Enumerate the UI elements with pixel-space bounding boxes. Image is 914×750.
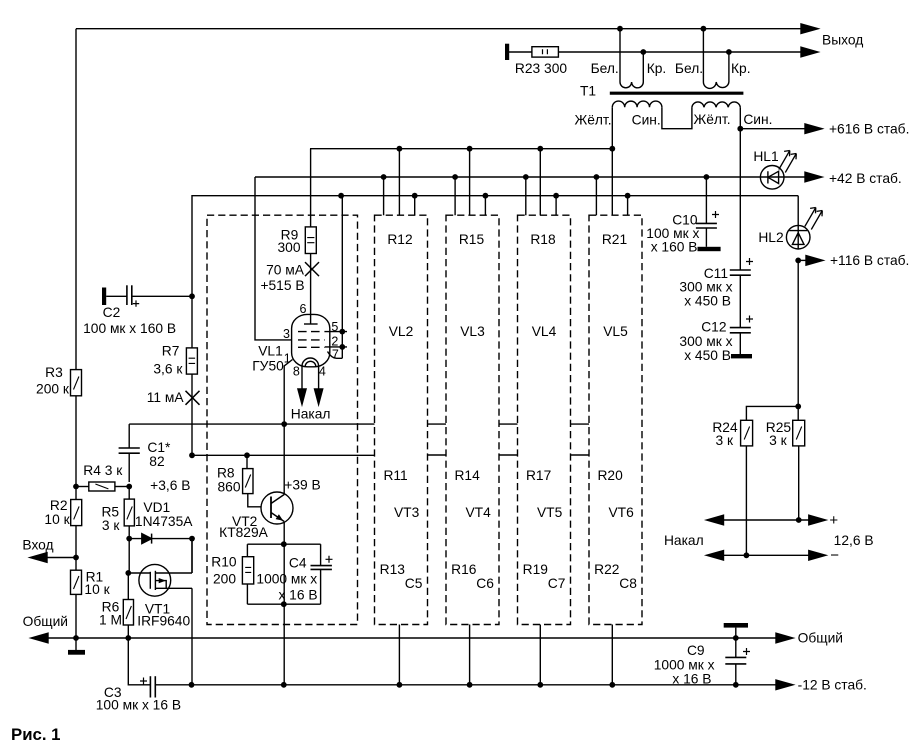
- svg-text:C1*: C1*: [147, 440, 171, 455]
- svg-text:11 мА: 11 мА: [147, 390, 185, 405]
- ground symbol: [75, 638, 77, 651]
- node C9 top: [733, 635, 739, 641]
- resistor R4: [76, 486, 89, 488]
- wire -12V rail (y=684.8): [155, 684, 776, 686]
- transistor VT1 IRF9640: [139, 564, 171, 596]
- svg-text:C12: C12: [701, 320, 726, 335]
- svg-text:х 450 В: х 450 В: [684, 348, 731, 363]
- svg-text:R19: R19: [523, 562, 549, 577]
- node out1-primary2: [701, 26, 707, 32]
- wire VD1 cathode vertical: [191, 539, 193, 573]
- svg-text:C9: C9: [687, 643, 705, 658]
- node pin 5: [339, 329, 345, 335]
- arrow Вход: [30, 553, 47, 563]
- node bus2 feeds: [381, 174, 387, 180]
- wire bus1 elbow to R9: [310, 149, 312, 227]
- node nakal plus R25: [796, 517, 802, 523]
- node pin1 midA: [281, 421, 287, 427]
- svg-text:R7: R7: [162, 344, 180, 359]
- resistor R9: [305, 227, 316, 254]
- svg-text:1000 мк х: 1000 мк х: [654, 658, 715, 673]
- node R4 left: [73, 484, 79, 490]
- tube anode plate: [304, 323, 318, 325]
- svg-text:C6: C6: [476, 576, 494, 591]
- svg-text:Кр.: Кр.: [731, 61, 751, 76]
- svg-text:Жёлт.: Жёлт.: [693, 112, 730, 127]
- node out1-primary1: [617, 26, 623, 32]
- capacitor C1: [119, 447, 140, 449]
- tube grid 3 (pin 2): [298, 346, 325, 348]
- svg-text:R17: R17: [526, 468, 551, 483]
- svg-text:Син.: Син.: [632, 113, 661, 128]
- wire loop bottom: [247, 603, 320, 605]
- block VL5 feed wires: [596, 149, 627, 216]
- wire bus1 (y=148.7): [310, 148, 612, 150]
- svg-text:R22: R22: [594, 562, 619, 577]
- svg-text:Общий: Общий: [798, 631, 843, 646]
- X mark 11 мА: [186, 391, 200, 405]
- wire C2 left: [106, 295, 127, 297]
- svg-text:Жёлт.: Жёлт.: [574, 113, 611, 128]
- capacitor C9: [725, 656, 746, 658]
- wire R7 down: [191, 374, 193, 455]
- wire Общий rail (y=638): [48, 637, 776, 639]
- node bus3 feeds: [338, 193, 344, 199]
- svg-text:300 мк х: 300 мк х: [679, 280, 732, 295]
- HL1 emission arrows: [779, 151, 797, 173]
- svg-text:C5: C5: [405, 576, 423, 591]
- resistor R25: [793, 420, 805, 446]
- svg-text:VL2: VL2: [389, 324, 414, 339]
- svg-text:R13: R13: [380, 562, 406, 577]
- arrow +42: [805, 172, 822, 182]
- svg-text:Бел.: Бел.: [675, 61, 703, 76]
- capacitor C10: [704, 174, 710, 180]
- terminal bar C9 top: [724, 623, 748, 628]
- svg-text:3 к: 3 к: [102, 518, 121, 533]
- node -12 rail joints: [189, 682, 195, 688]
- arrow Общий left: [31, 633, 48, 643]
- terminal bar C12 bottom: [739, 333, 741, 354]
- svg-text:VT5: VT5: [537, 505, 563, 520]
- svg-text:Кр.: Кр.: [647, 61, 667, 76]
- resistor R3: [71, 370, 82, 396]
- wire R2 to R1: [75, 526, 77, 571]
- tube grid 2 (pin 3): [298, 339, 325, 341]
- svg-text:8: 8: [293, 364, 300, 378]
- wire C2 right: [132, 295, 192, 297]
- svg-text:ГУ50: ГУ50: [252, 358, 284, 373]
- svg-text:200 к: 200 к: [36, 381, 70, 396]
- node R8 top: [244, 452, 250, 458]
- svg-text:VL4: VL4: [532, 324, 557, 339]
- node C2-R7: [189, 293, 195, 299]
- svg-text:VT3: VT3: [394, 505, 420, 520]
- wire +616: [740, 128, 805, 130]
- arrow +116: [806, 256, 823, 266]
- svg-text:х 16 В: х 16 В: [672, 672, 711, 687]
- svg-text:100 мк х 16 В: 100 мк х 16 В: [96, 697, 181, 712]
- wire pin 7: [328, 352, 343, 359]
- svg-text:4: 4: [319, 364, 326, 378]
- svg-text:R3: R3: [45, 365, 63, 380]
- svg-text:Вход: Вход: [22, 538, 53, 553]
- transistor VT2: [261, 492, 293, 524]
- HL2 emission arrows: [805, 208, 823, 230]
- svg-text:C4: C4: [289, 556, 307, 571]
- node pin 2: [339, 344, 345, 350]
- arrow nakal plus right: [809, 515, 826, 525]
- svg-text:R23 300: R23 300: [515, 61, 567, 76]
- wire bus3 (y=195.7): [193, 195, 799, 197]
- wire R1 to Общий: [75, 594, 77, 638]
- wire pin 3 left: [255, 177, 292, 340]
- svg-text:860: 860: [217, 480, 240, 495]
- svg-text:х 160 В: х 160 В: [651, 240, 698, 255]
- svg-text:5: 5: [331, 320, 338, 334]
- svg-text:VL5: VL5: [603, 324, 628, 339]
- wire Общий to C3: [128, 638, 150, 685]
- wire midB stubs between blocks (y=455): [428, 454, 590, 456]
- dashed box VL2 block: [375, 215, 428, 624]
- svg-text:HL2: HL2: [758, 230, 783, 245]
- svg-text:-12 В стаб.: -12 В стаб.: [798, 678, 867, 693]
- wire R24 to nakal minus: [745, 446, 747, 555]
- wire VT2 emitter down: [283, 522, 285, 685]
- resistor R7: [186, 348, 197, 374]
- wire output top (Выход line 1): [76, 28, 801, 30]
- LED HL1: [760, 166, 784, 190]
- svg-text:VD1: VD1: [143, 500, 170, 515]
- wire VT1 source down: [191, 588, 193, 685]
- wire R24 elbow: [746, 406, 798, 420]
- svg-text:C8: C8: [619, 576, 637, 591]
- arrow heater 4: [315, 389, 323, 404]
- wire C1 elbow: [128, 424, 130, 448]
- node R24 elbow: [795, 404, 801, 410]
- wire Вход: [47, 557, 76, 559]
- wire loop top: [247, 543, 320, 545]
- resistor R2: [71, 500, 82, 526]
- svg-text:Выход: Выход: [822, 33, 863, 48]
- capacitor C4: [320, 544, 322, 565]
- block VL2 feed wires: [384, 149, 415, 216]
- transformer T1 secondary winding 2 (Жёлт-Син): [692, 102, 740, 107]
- svg-text:+42 В стаб.: +42 В стаб.: [829, 171, 902, 186]
- diode VD1 zener: [129, 538, 192, 540]
- wire R9 to anode: [310, 254, 312, 325]
- svg-text:R11: R11: [383, 468, 407, 483]
- node T1-616: [737, 126, 743, 132]
- svg-text:VT4: VT4: [465, 505, 491, 520]
- arrow Выход 1: [801, 24, 818, 34]
- wire midB (y=455.3): [192, 454, 375, 456]
- wire +42 bus (y=177): [255, 176, 805, 178]
- block VL4 feed wires: [526, 149, 556, 216]
- node R6 bottom rail: [125, 635, 131, 641]
- dashed box VL5 block: [589, 215, 642, 624]
- svg-text:R8: R8: [217, 465, 235, 480]
- svg-text:200: 200: [213, 571, 236, 586]
- LED HL2: [786, 225, 810, 249]
- svg-text:R16: R16: [451, 562, 477, 577]
- svg-text:+3,6 В: +3,6 В: [150, 478, 190, 493]
- capacitor C12: [730, 327, 751, 329]
- node nakal minus R24: [744, 552, 750, 558]
- svg-text:10 к: 10 к: [84, 582, 110, 597]
- svg-text:3: 3: [283, 327, 290, 341]
- wire R6 to rail: [127, 625, 129, 638]
- svg-text:VL3: VL3: [460, 324, 485, 339]
- svg-text:3,6 к: 3,6 к: [153, 362, 183, 377]
- node Вход: [73, 555, 79, 561]
- transformer T1 primary winding 1 (Бел-Кр): [619, 29, 621, 82]
- wire +116: [798, 259, 806, 261]
- svg-text:R15: R15: [459, 232, 485, 247]
- svg-text:R18: R18: [530, 232, 556, 247]
- svg-text:C7: C7: [548, 576, 566, 591]
- wire Син jumper: [662, 107, 692, 128]
- arrow nakal plus left: [707, 515, 724, 525]
- tube grid 1 (pin 5): [298, 331, 325, 333]
- node VT1 gate: [125, 570, 131, 576]
- svg-text:R10: R10: [211, 555, 237, 570]
- terminal bar C2 left: [102, 288, 106, 306]
- wire nakal plus: [723, 519, 812, 521]
- svg-text:R12: R12: [387, 232, 412, 247]
- svg-text:+616 В стаб.: +616 В стаб.: [829, 122, 909, 137]
- svg-text:10 к: 10 к: [44, 512, 70, 527]
- svg-text:Рис. 1: Рис. 1: [11, 725, 61, 744]
- svg-text:IRF9640: IRF9640: [137, 614, 190, 629]
- svg-text:Накал: Накал: [291, 407, 331, 422]
- wire midA stubs between blocks (y=424.1): [428, 423, 590, 425]
- svg-text:300: 300: [277, 240, 300, 255]
- svg-text:R2: R2: [50, 498, 68, 513]
- wire VT2 collector up: [283, 424, 285, 494]
- wire bus3 elbow to R7: [191, 196, 194, 348]
- svg-text:R4 3 к: R4 3 к: [83, 463, 123, 478]
- wire midA (y=424.1): [129, 423, 374, 425]
- svg-text:Син.: Син.: [743, 112, 772, 127]
- dashed box VL1 block: [207, 215, 358, 624]
- tube cathode dome: [302, 358, 319, 367]
- svg-text:C2: C2: [103, 305, 121, 320]
- svg-text:3 к: 3 к: [769, 433, 788, 448]
- wire R25 to nakal plus: [798, 446, 800, 520]
- svg-text:R14: R14: [454, 468, 480, 483]
- wire heater pin 8: [301, 367, 303, 389]
- wire heater pin 4: [318, 367, 320, 389]
- svg-text:−: −: [830, 547, 839, 564]
- svg-text:+116 В стаб.: +116 В стаб.: [830, 253, 909, 268]
- tube VL1 envelope: [292, 314, 330, 366]
- wire out2 left: [509, 51, 532, 53]
- resistor R10: [246, 544, 248, 557]
- node VD1 anode: [126, 536, 132, 542]
- X mark 70 мА: [305, 262, 319, 276]
- svg-text:T1: T1: [580, 84, 596, 99]
- resistor R6: [127, 573, 129, 600]
- resistor R24: [741, 420, 753, 446]
- wire VT1 drain up: [191, 539, 193, 573]
- wire nakal minus: [723, 554, 812, 556]
- dashed box VL3 block: [446, 215, 499, 624]
- node Общий left: [73, 635, 79, 641]
- svg-text:R21: R21: [602, 232, 627, 247]
- resistor R8: [246, 455, 248, 468]
- node bus1 feeds: [397, 146, 403, 152]
- capacitor C2: [126, 285, 128, 305]
- node loop bottom: [281, 601, 287, 607]
- svg-text:КТ829А: КТ829А: [219, 525, 268, 540]
- arrow heater 8: [298, 389, 306, 404]
- wire R8 to base: [248, 494, 262, 507]
- arrow -12V right: [776, 680, 793, 690]
- svg-text:1 М: 1 М: [99, 613, 122, 628]
- svg-text:1000 мк х: 1000 мк х: [256, 572, 317, 587]
- resistor R5: [128, 487, 130, 500]
- arrow Выход 2: [801, 47, 818, 57]
- svg-text:100 мк х 160 В: 100 мк х 160 В: [83, 321, 176, 336]
- capacitor C11: [730, 269, 751, 271]
- svg-text:Накал: Накал: [664, 533, 704, 548]
- arrow Общий right: [776, 633, 793, 643]
- svg-text:3 к: 3 к: [716, 433, 735, 448]
- transformer T1 secondary winding 1 (Жёлт-Син): [612, 101, 662, 107]
- node R4 right: [126, 484, 132, 490]
- node midB left: [189, 452, 195, 458]
- svg-text:12,6 В: 12,6 В: [834, 533, 874, 548]
- svg-text:1N4735A: 1N4735A: [135, 514, 193, 529]
- svg-text:7: 7: [332, 347, 339, 361]
- node VD1 cathode: [189, 536, 195, 542]
- block bottom wires to -12V rail: [399, 625, 612, 685]
- svg-text:+: +: [829, 512, 838, 529]
- arrow nakal minus right: [809, 551, 826, 561]
- wire left bus top (x=76): [75, 29, 77, 370]
- wire pin 1 down: [284, 360, 292, 425]
- dashed box VL4 block: [518, 215, 571, 624]
- svg-text:+39 В: +39 В: [284, 477, 320, 492]
- resistor R1: [71, 570, 82, 594]
- wire R3 to R2: [75, 396, 77, 500]
- svg-text:82: 82: [149, 454, 164, 469]
- svg-text:VT6: VT6: [608, 505, 634, 520]
- svg-text:Бел.: Бел.: [591, 61, 619, 76]
- node +116: [795, 258, 801, 264]
- wire out2 (Выход line 2): [558, 51, 801, 53]
- terminal bar (R23 left): [505, 44, 509, 60]
- node loop top: [281, 541, 287, 547]
- capacitor C3: [149, 676, 151, 697]
- svg-text:Общий: Общий: [23, 614, 68, 629]
- wire C11 to C12: [739, 275, 741, 327]
- svg-text:х 16 В: х 16 В: [278, 588, 317, 603]
- wire tube right bus (x=342.2): [341, 196, 343, 359]
- svg-text:х 450 В: х 450 В: [684, 294, 731, 309]
- wire HL2 feed (y=195.7 elbow down): [797, 196, 799, 249]
- transformer T1 primary winding 2 (Бел-Кр): [702, 29, 704, 82]
- arrow +616: [805, 124, 822, 134]
- svg-text:R20: R20: [597, 468, 623, 483]
- wire T1 to C11: [739, 129, 741, 270]
- svg-text:70 мА: 70 мА: [266, 263, 305, 278]
- svg-text:300 мк х: 300 мк х: [679, 334, 732, 349]
- arrow nakal minus left: [707, 551, 724, 561]
- wire +116 down to R24/R25: [797, 260, 799, 420]
- node out2-primary1: [640, 49, 646, 55]
- resistor R23: [532, 47, 559, 57]
- svg-text:+515 В: +515 В: [260, 278, 304, 293]
- wire gate: [128, 572, 150, 574]
- svg-text:VL1: VL1: [258, 344, 283, 359]
- transformer T1 core: [610, 92, 744, 95]
- svg-text:HL1: HL1: [753, 149, 778, 164]
- wire R5 to VD1 node: [128, 526, 130, 573]
- node out2-primary2: [726, 49, 732, 55]
- block VL3 feed wires: [455, 149, 485, 216]
